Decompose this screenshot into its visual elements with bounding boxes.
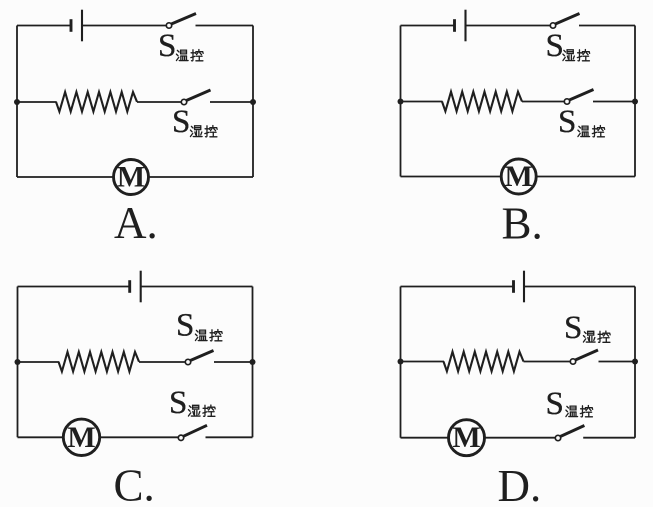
svg-text:S: S <box>172 104 190 140</box>
switch S-shikong D <box>570 359 575 364</box>
svg-text:S: S <box>546 28 564 64</box>
wire mid-left C <box>18 361 60 363</box>
switch S-wenkong A <box>166 23 171 28</box>
node right C <box>250 359 256 365</box>
wire resistor-to-switch B <box>522 101 564 103</box>
wire mid-left B <box>401 101 443 103</box>
motor M C <box>63 419 99 455</box>
motor M B <box>501 159 536 194</box>
wire battery-to-switch B <box>466 25 551 27</box>
wire mid-left A <box>17 101 57 103</box>
battery cell C <box>128 280 131 293</box>
wire resistor-to-switch D <box>524 361 571 363</box>
svg-text:M: M <box>505 160 533 193</box>
wire mid-right A <box>210 101 253 103</box>
svg-text:S: S <box>158 28 176 64</box>
motor M D <box>449 420 485 456</box>
svg-text:S: S <box>558 104 576 140</box>
svg-text:M: M <box>117 161 145 194</box>
wire bottom-right C <box>206 436 253 438</box>
node left B <box>398 99 404 105</box>
resistor R C <box>59 352 140 372</box>
resistor R B <box>442 92 522 112</box>
wire switch-to-corner A <box>196 25 254 27</box>
battery cell B <box>453 19 456 32</box>
svg-text:S: S <box>564 310 582 346</box>
wire battery-to-switch A <box>82 25 166 27</box>
svg-text:B.: B. <box>502 199 543 249</box>
switch S-shikong A <box>181 99 186 104</box>
svg-text:C.: C. <box>114 461 155 507</box>
wire left vertical D <box>400 287 402 438</box>
wire resistor-to-switch A <box>137 101 181 103</box>
battery cell D <box>512 280 515 293</box>
wire mid-right D <box>599 361 636 363</box>
wire mid-left D <box>401 361 445 363</box>
wire top-right segment D <box>524 286 635 288</box>
wire top-left segment C <box>18 286 130 288</box>
wire right vertical C <box>252 287 254 438</box>
resistor R A <box>56 92 137 112</box>
node right B <box>632 99 638 105</box>
svg-text:M: M <box>67 421 95 454</box>
wire left vertical A <box>16 26 18 178</box>
wire top-left segment D <box>401 286 514 288</box>
svg-text:S: S <box>169 385 187 421</box>
wire bottom A <box>17 176 253 178</box>
node right D <box>632 359 638 365</box>
switch S-wenkong B <box>564 99 569 104</box>
wire bottom-left D <box>401 437 556 439</box>
wire top-right segment C <box>141 286 253 288</box>
wire resistor-to-switch C <box>139 361 185 363</box>
svg-text:D.: D. <box>498 461 542 507</box>
node left A <box>14 99 20 105</box>
wire left vertical B <box>400 26 402 177</box>
wire switch-to-corner B <box>579 25 635 27</box>
wire bottom B <box>401 176 636 178</box>
switch S-shikong B <box>550 23 555 28</box>
switch S-shikong C <box>178 435 183 440</box>
wire top-left segment A <box>17 25 71 27</box>
wire right vertical D <box>634 287 636 438</box>
svg-text:S: S <box>176 308 194 344</box>
resistor R D <box>444 352 524 372</box>
node right A <box>250 99 256 105</box>
wire top-left segment B <box>401 25 455 27</box>
svg-text:S: S <box>546 386 564 422</box>
wire right vertical B <box>634 26 636 177</box>
wire left vertical C <box>17 287 19 438</box>
battery cell A <box>70 19 73 32</box>
wire bottom-left C <box>18 436 179 438</box>
node left D <box>398 359 404 365</box>
wire bottom-right D <box>583 437 635 439</box>
node left C <box>15 359 21 365</box>
switch S-wenkong D <box>555 435 560 440</box>
wire mid-right C <box>214 361 253 363</box>
svg-text:A.: A. <box>114 198 158 248</box>
wire mid-right B <box>593 101 635 103</box>
wire right vertical A <box>252 26 254 178</box>
motor M A <box>114 160 149 195</box>
svg-text:M: M <box>452 421 480 454</box>
switch S-wenkong C <box>185 359 190 364</box>
